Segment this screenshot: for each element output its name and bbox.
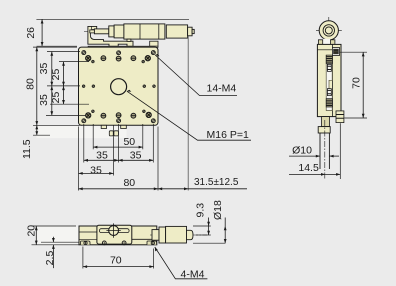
front view left foot notch xyxy=(81,241,91,245)
front view left foot hole xyxy=(84,241,87,244)
bottom hanging notch left (plan) xyxy=(101,125,106,128)
slot screw top-left xyxy=(101,56,106,61)
white zone below plate xyxy=(37,126,127,138)
micrometer thimble (plan) xyxy=(124,24,165,39)
ext vertical 70-right (front) xyxy=(153,249,155,269)
leader 14-M4 xyxy=(155,54,237,96)
bottom tab foot right (plan) xyxy=(114,131,119,136)
side view screw nut lower xyxy=(327,89,331,96)
side view top clamp screw xyxy=(332,48,339,56)
middle row holes left xyxy=(82,85,85,88)
ext line 2.5-top xyxy=(41,241,79,243)
side view vertical centerline through circle xyxy=(328,17,330,44)
front view adjuster crosshair xyxy=(106,223,120,237)
front view plate seam left xyxy=(79,231,97,233)
micrometer spindle (plan) xyxy=(94,29,108,34)
svg-text:2.5: 2.5 xyxy=(44,251,56,266)
front view end cap xyxy=(187,230,194,239)
satellite screw bottom-left xyxy=(92,110,95,113)
side view horizontal centerline through circle xyxy=(316,29,342,31)
micrometer ratchet drum (plan) xyxy=(166,25,187,38)
ext vertical 80-left xyxy=(78,127,80,191)
ext line plate-bottom (80) xyxy=(33,124,82,126)
side view inner white column xyxy=(326,55,332,110)
ext line thimble-bottom xyxy=(193,242,225,244)
side view screw detail upper xyxy=(326,55,332,63)
ext line 11.5 bottom xyxy=(33,134,50,136)
svg-text:26: 26 xyxy=(25,27,37,39)
white zone left of front body xyxy=(37,226,79,244)
svg-text:80: 80 xyxy=(25,78,37,90)
svg-text:35: 35 xyxy=(130,149,142,161)
micrometer end nub (plan) xyxy=(192,29,194,33)
svg-text:20: 20 xyxy=(26,225,38,237)
ext vertical 80-right xyxy=(157,127,159,191)
ext vertical 14.5-right xyxy=(339,123,341,179)
ext line 26-bottom xyxy=(37,45,78,47)
dimension 9.3 xyxy=(207,218,210,236)
X screw bottom-right xyxy=(146,112,151,117)
svg-text:35: 35 xyxy=(38,94,50,106)
slot screw top-right xyxy=(131,56,136,61)
svg-text:14.5: 14.5 xyxy=(298,162,319,174)
leader M16 P=1 xyxy=(127,90,251,141)
front view micrometer centerline xyxy=(150,234,207,236)
main plate (plan view) xyxy=(79,47,159,125)
svg-text:Ø10: Ø10 xyxy=(292,144,312,156)
ext vertical 50-left xyxy=(92,124,94,149)
ext line 26-top xyxy=(36,18,189,20)
ext line plate-top (80) xyxy=(33,46,77,48)
ext line thimble-top xyxy=(193,225,211,227)
thimble edge line 2 xyxy=(158,24,160,39)
svg-text:25: 25 xyxy=(50,69,62,81)
center hole M16 (plan) xyxy=(111,79,127,95)
side view right leg xyxy=(331,40,335,45)
front view main body xyxy=(79,226,157,245)
svg-text:35: 35 xyxy=(38,63,50,75)
side view circle bore xyxy=(325,27,332,34)
dimension 20 xyxy=(35,226,38,245)
dimension 11.5 line xyxy=(35,125,38,135)
bottom hanging notch right (plan) xyxy=(121,125,127,128)
svg-text:14-M4: 14-M4 xyxy=(207,83,237,95)
side view lower connector xyxy=(322,117,330,127)
satellite screw bottom-right xyxy=(143,110,146,113)
side view body step line xyxy=(317,49,332,51)
svg-text:70: 70 xyxy=(110,254,122,266)
ext vertical 70-left (front) xyxy=(82,247,84,269)
dimension 50 line xyxy=(93,146,143,149)
side view screw detail lower xyxy=(326,99,332,107)
side view screw nut upper xyxy=(327,64,331,71)
dimension 26 line xyxy=(41,19,44,46)
front view plate seam right xyxy=(132,238,157,240)
micrometer mount feet (plan) xyxy=(127,39,131,41)
ext vertical 50-right xyxy=(142,124,144,149)
front view block screw left xyxy=(102,241,106,245)
micrometer lock ring (plan) xyxy=(109,26,114,37)
side view rod centerline xyxy=(324,120,326,179)
slot screw bottom-left xyxy=(101,113,106,118)
X screw top-left xyxy=(86,56,91,61)
carriage strip (plan, under micrometer) xyxy=(88,46,158,47)
center pair bottom xyxy=(116,113,121,118)
satellite screw top-left xyxy=(92,60,95,63)
front view slot in block xyxy=(99,229,129,233)
ext vertical 35-col-left xyxy=(83,124,85,163)
dimension 70 line (side) xyxy=(362,52,365,118)
dimension Ø10 xyxy=(289,155,339,158)
satellite screw top-right xyxy=(142,60,145,63)
bracket clamp tab notch xyxy=(91,26,93,29)
svg-text:35: 35 xyxy=(96,149,108,161)
ext line 35-bottom xyxy=(46,114,86,116)
svg-text:11.5: 11.5 xyxy=(21,139,33,159)
front view right foot notch xyxy=(147,241,157,245)
front view spindle adapter xyxy=(152,230,159,241)
center pair top xyxy=(117,51,121,55)
front view clamp xyxy=(159,227,166,243)
dimension 14.5 xyxy=(289,173,340,176)
svg-text:31.5±12.5: 31.5±12.5 xyxy=(194,177,239,188)
svg-text:9.3: 9.3 xyxy=(195,203,207,218)
side view bottom-right bracket xyxy=(336,111,344,123)
ext vertical tab-center xyxy=(113,125,115,175)
svg-text:50: 50 xyxy=(123,136,135,148)
dimension 25 line xyxy=(62,62,65,105)
dimension 2.5 xyxy=(52,237,55,268)
dimension 80 line (left) xyxy=(35,47,38,125)
side view thimble circle xyxy=(319,21,338,40)
corner screw top-right xyxy=(151,51,155,55)
svg-text:35: 35 xyxy=(90,164,102,176)
svg-text:M16 P=1: M16 P=1 xyxy=(207,129,249,141)
front view thimble xyxy=(166,226,187,243)
side view nut block xyxy=(318,127,330,133)
dimension 80 bottom line xyxy=(79,187,159,190)
corner screw top-left xyxy=(82,51,86,55)
ext line axis xyxy=(196,234,211,236)
dimension 31.5±12.5 line xyxy=(158,187,247,190)
dimension 35 top line xyxy=(50,52,53,116)
svg-text:80: 80 xyxy=(123,177,135,189)
side view circle inner ring xyxy=(323,25,334,36)
micrometer barrel (plan) xyxy=(114,25,124,38)
front view adjuster circle xyxy=(109,226,119,236)
dimension 70 (front) xyxy=(83,265,154,268)
dimension 35|35 line xyxy=(84,159,154,162)
dimension 35 single line xyxy=(79,172,114,175)
front view block screw right xyxy=(122,241,126,245)
front view plate seam left lower xyxy=(79,238,97,240)
ext vertical 35-right xyxy=(152,124,154,163)
ext vertical micrometer-end xyxy=(187,36,189,191)
corner screw bottom-right xyxy=(151,119,155,123)
side view rod Ø10 xyxy=(320,133,329,169)
svg-text:70: 70 xyxy=(351,77,363,89)
left border stripe xyxy=(0,260,8,286)
micrometer bracket (plan) xyxy=(88,26,133,46)
ext line middle row xyxy=(47,85,80,87)
middle row holes right xyxy=(143,85,146,88)
side view body xyxy=(317,44,341,116)
ext line 70-top xyxy=(340,51,368,53)
micrometer centerline (plan) xyxy=(84,31,194,33)
svg-text:4-M4: 4-M4 xyxy=(181,268,205,280)
svg-text:Ø18: Ø18 xyxy=(212,200,224,220)
corner screw bottom-left xyxy=(82,119,86,123)
svg-text:25: 25 xyxy=(50,92,62,104)
ext line 20-bottom xyxy=(32,244,80,246)
X screw bottom-left xyxy=(86,113,91,118)
dimension Ø18 xyxy=(224,218,227,244)
bottom tab foot left (plan) xyxy=(109,131,113,136)
side view body inner line xyxy=(331,44,333,116)
micrometer spindle tip (plan) xyxy=(90,30,95,33)
ext line 35-top xyxy=(47,51,80,53)
ext line 25-top xyxy=(59,61,89,63)
ext line 70-bottom xyxy=(344,117,367,119)
side view left leg xyxy=(318,40,322,45)
ext line 25-bottom xyxy=(50,103,89,105)
ext line 20-top xyxy=(32,225,77,227)
thimble edge line xyxy=(139,24,141,39)
front view right foot hole xyxy=(151,241,154,244)
front view center block xyxy=(97,225,132,244)
slot screw bottom-right xyxy=(131,113,136,118)
X screw top-right xyxy=(145,56,150,61)
micrometer end cap (plan) xyxy=(188,27,193,36)
ext vertical center xyxy=(117,124,119,163)
side view white gap between legs xyxy=(323,39,331,44)
leader 4-M4 xyxy=(155,247,208,279)
